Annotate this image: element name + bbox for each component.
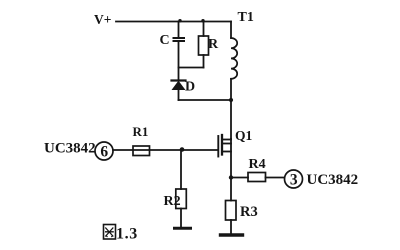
pin circle 3 <box>285 170 303 188</box>
node tick C on rail <box>178 19 181 22</box>
ground under R3 <box>221 233 243 236</box>
node source/R4 junction <box>229 175 233 179</box>
wire T1 primary top <box>230 22 232 39</box>
wire R bottom <box>203 55 205 68</box>
svg-text:UC3842: UC3842 <box>44 141 96 157</box>
resistor R4 <box>248 173 266 182</box>
resistor R1 <box>133 146 150 156</box>
resistor R2 <box>176 189 187 209</box>
svg-text:T1: T1 <box>238 10 254 25</box>
svg-text:Q1: Q1 <box>235 128 253 143</box>
svg-text:R4: R4 <box>249 157 266 172</box>
wire C to D <box>178 42 180 80</box>
wire R2 to ground <box>180 209 182 228</box>
transformer T1 winding <box>231 38 237 79</box>
svg-text:R1: R1 <box>133 124 149 139</box>
svg-text:R2: R2 <box>164 194 181 209</box>
caption figure box glyph <box>104 225 116 240</box>
svg-text:V+: V+ <box>94 12 111 27</box>
wire gate <box>113 149 218 151</box>
wire top rail V+ to T1 <box>116 21 231 23</box>
svg-text:UC3842: UC3842 <box>307 172 359 188</box>
svg-text:3: 3 <box>290 172 298 189</box>
resistor R <box>199 36 209 55</box>
wire R3 to ground <box>230 220 232 234</box>
transistor Q1 <box>218 135 231 157</box>
wire Q1 source down to R3 <box>230 139 232 201</box>
svg-text:C: C <box>160 33 170 48</box>
svg-text:R: R <box>208 37 219 52</box>
pin circle 6 <box>95 142 113 160</box>
node T1/snubber junction <box>229 98 233 102</box>
ground under R2 <box>175 227 191 230</box>
svg-text:1.3: 1.3 <box>116 226 138 243</box>
resistor R3 <box>226 201 237 221</box>
wire R4 <box>231 177 248 179</box>
wire R4 to pin 3 <box>266 177 285 179</box>
svg-text:D: D <box>185 80 195 95</box>
wire R2 branch <box>180 150 182 189</box>
wire T1 bottom to drain <box>230 79 232 139</box>
node gate/R2 junction <box>180 147 185 152</box>
capacitor C <box>174 38 185 41</box>
wire C branch upper <box>178 22 180 37</box>
node tick R on rail <box>201 19 204 22</box>
wire R branch upper <box>203 22 205 37</box>
svg-text:R3: R3 <box>240 204 258 220</box>
wire D to bottom <box>178 90 180 101</box>
diode D <box>172 81 186 90</box>
wire snubber bottom <box>179 99 232 101</box>
svg-text:6: 6 <box>100 144 108 161</box>
wire R to diode line <box>179 67 204 69</box>
